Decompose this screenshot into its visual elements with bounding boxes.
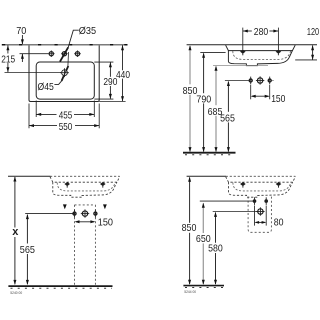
svg-text:580: 580 [208, 243, 223, 254]
svg-text:850: 850 [183, 86, 198, 97]
svg-text:850: 850 [182, 223, 197, 234]
svg-text:150: 150 [271, 94, 285, 105]
svg-text:455: 455 [59, 110, 73, 121]
svg-text:280: 280 [254, 27, 269, 38]
svg-text:565: 565 [20, 245, 35, 256]
svg-text:x: x [12, 226, 19, 238]
svg-text:215: 215 [1, 55, 15, 66]
svg-text:120: 120 [307, 27, 319, 38]
svg-text:Ø45: Ø45 [38, 82, 54, 93]
svg-text:70: 70 [16, 26, 26, 37]
svg-text:5240 00: 5240 00 [10, 290, 23, 295]
svg-text:80: 80 [274, 217, 284, 228]
svg-text:440: 440 [116, 70, 130, 81]
svg-text:Ø35: Ø35 [79, 26, 96, 37]
svg-text:550: 550 [59, 122, 73, 133]
svg-text:5244 00: 5244 00 [184, 289, 196, 294]
svg-text:150: 150 [98, 218, 113, 229]
svg-text:565: 565 [220, 113, 235, 124]
svg-text:790: 790 [196, 95, 211, 106]
